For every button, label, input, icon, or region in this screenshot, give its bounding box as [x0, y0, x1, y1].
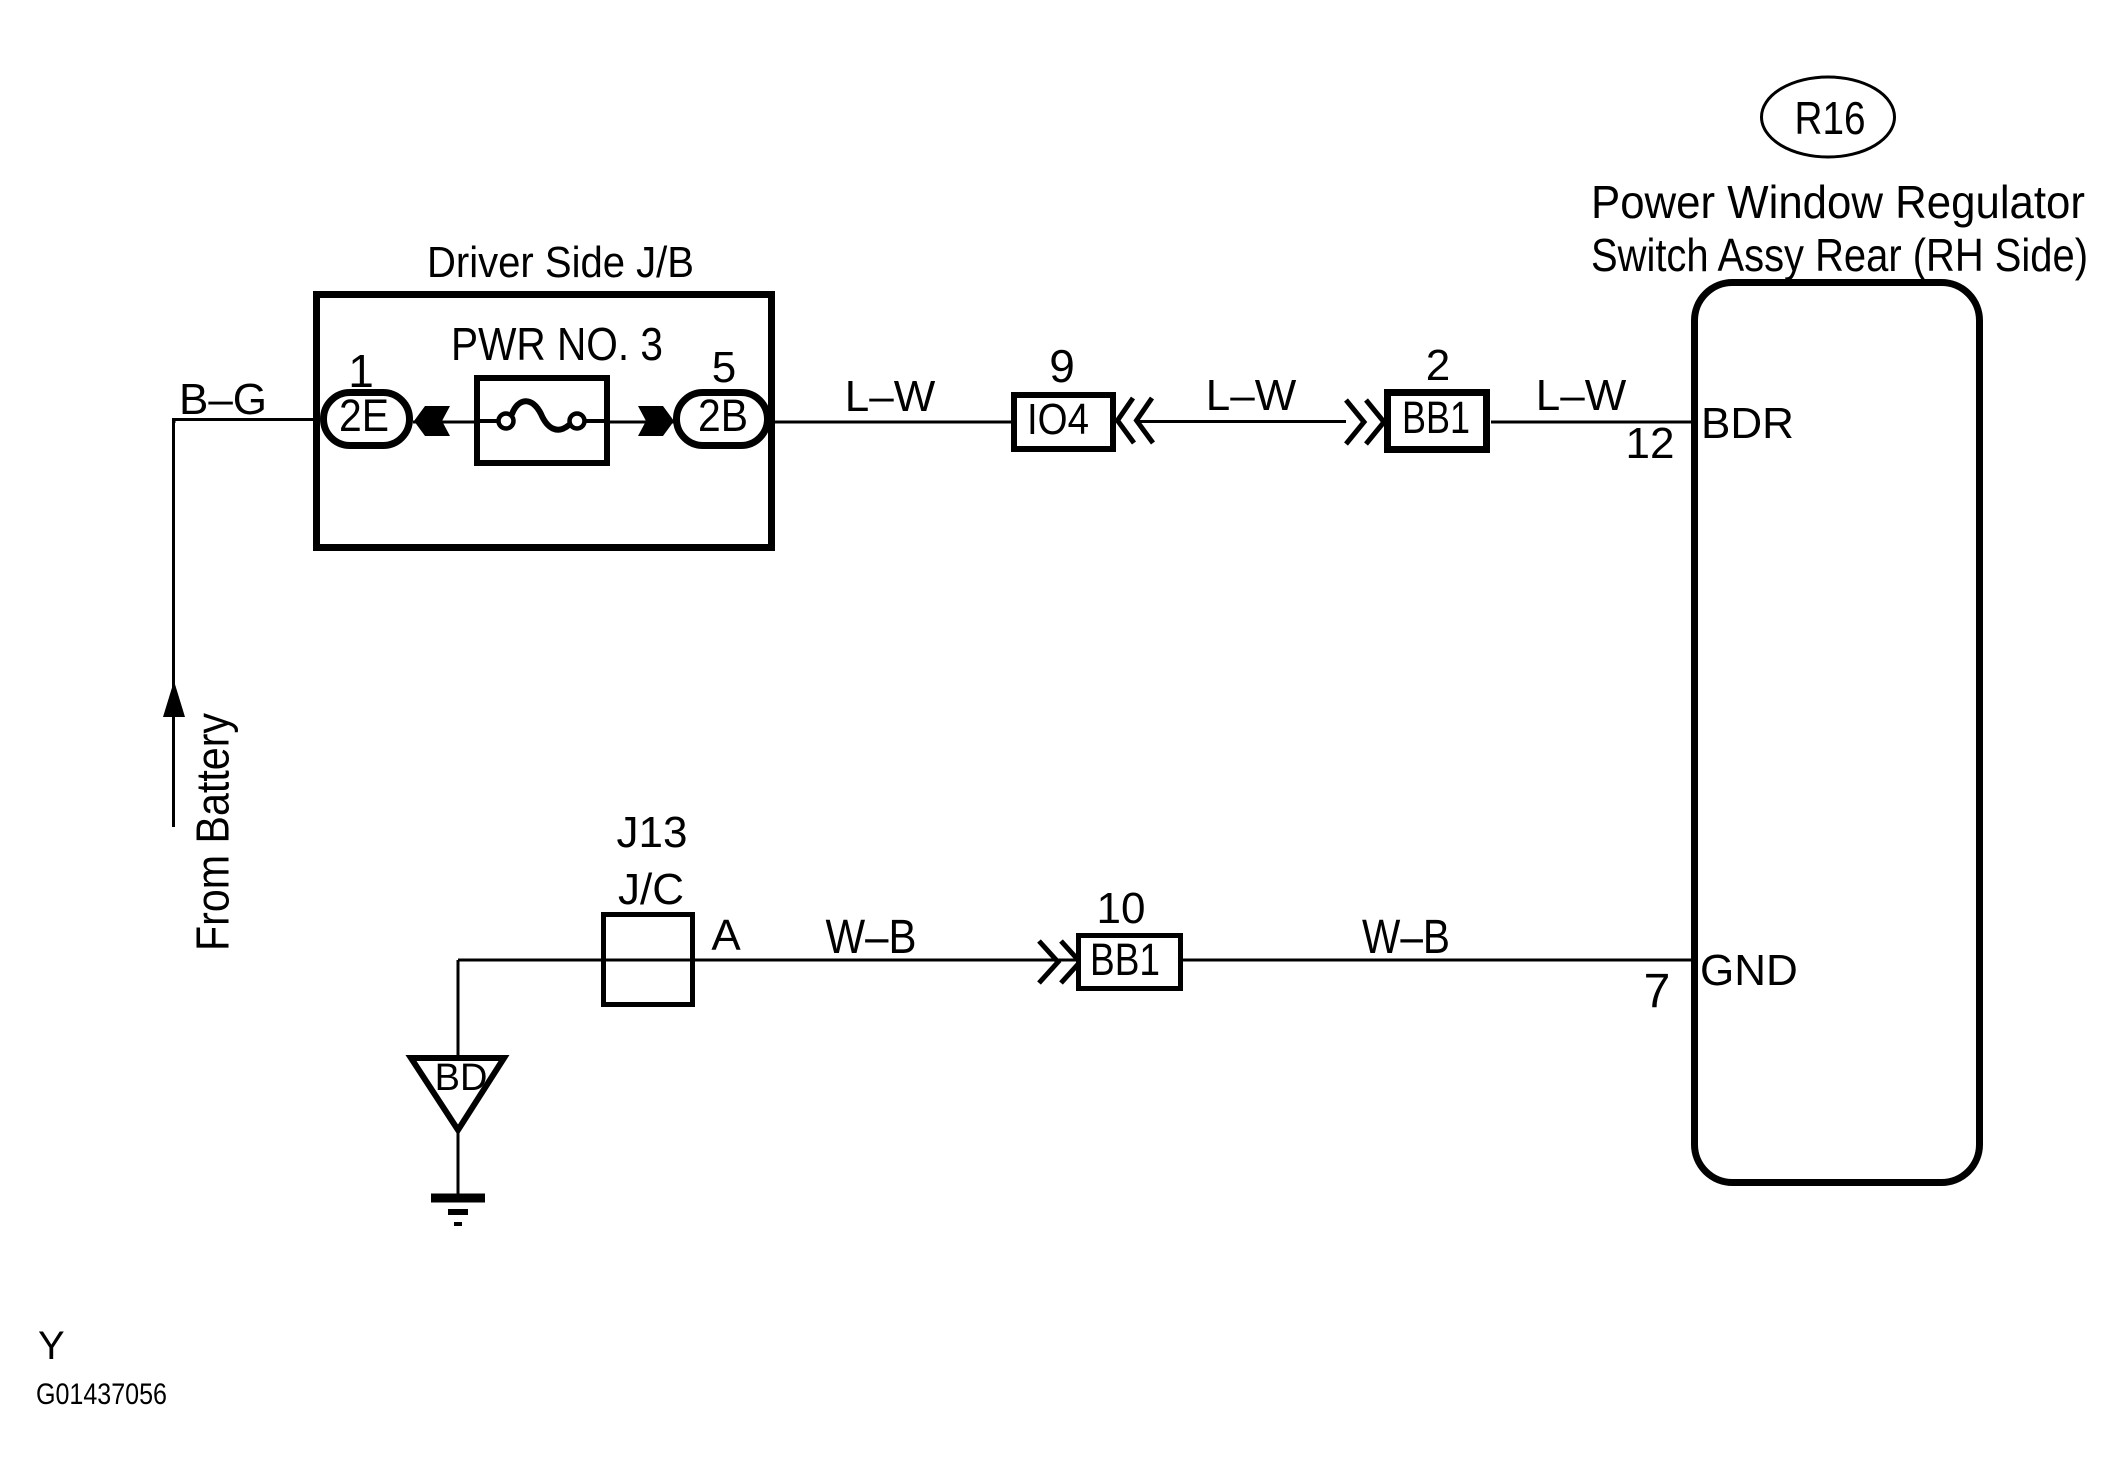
svg-text:BDR: BDR — [1701, 399, 1794, 448]
junction connector J13 J/C — [604, 808, 693, 1005]
wire vertical to ground — [457, 960, 460, 1057]
chevron connector << after IO4 — [1118, 398, 1154, 443]
svg-text:10: 10 — [1097, 884, 1146, 933]
svg-text:2B: 2B — [698, 390, 748, 441]
svg-text:Y: Y — [38, 1324, 65, 1368]
svg-text:2: 2 — [1426, 341, 1450, 390]
svg-text:L–W: L–W — [1206, 371, 1297, 420]
svg-text:L–W: L–W — [1536, 371, 1627, 420]
svg-text:From Battery: From Battery — [187, 713, 239, 951]
switch assembly box R16 — [1695, 283, 1980, 1183]
svg-text:B–G: B–G — [179, 375, 267, 424]
svg-text:J13: J13 — [617, 808, 688, 857]
svg-text:R16: R16 — [1795, 92, 1866, 144]
svg-text:A: A — [711, 911, 741, 960]
svg-text:BB1: BB1 — [1090, 934, 1160, 985]
arrow From Battery (up arrowhead) — [163, 681, 185, 717]
wire W-B lower run — [458, 959, 1692, 962]
svg-text:PWR NO. 3: PWR NO. 3 — [451, 318, 663, 370]
svg-text:L–W: L–W — [845, 372, 936, 421]
wire battery riser vertical — [172, 420, 175, 828]
connector 2B — [677, 390, 768, 446]
wire L-W segment 1 — [774, 421, 1011, 424]
arrow right toward 2B — [638, 406, 674, 436]
ground symbol bars — [431, 1198, 485, 1224]
wire L-W segment 3 — [1491, 421, 1694, 424]
connector BB1 bottom — [1079, 934, 1181, 989]
wire 2E to fuse — [413, 421, 474, 424]
svg-text:Driver Side J/B: Driver Side J/B — [427, 238, 694, 287]
wire L-W segment 2 — [1139, 420, 1346, 423]
chevron connector >> before BB1 lower — [1039, 941, 1080, 983]
junction block Driver Side J/B — [317, 295, 772, 548]
svg-text:Switch Assy Rear (RH Side): Switch Assy Rear (RH Side) — [1591, 229, 2088, 281]
svg-text:9: 9 — [1049, 340, 1075, 392]
wire fuse to 2B — [610, 421, 674, 424]
component R16 ellipse — [1762, 77, 1895, 157]
svg-text:7: 7 — [1644, 965, 1671, 1018]
svg-text:J/C: J/C — [618, 865, 684, 914]
svg-text:IO4: IO4 — [1027, 395, 1089, 444]
ground BD triangle — [411, 1057, 504, 1130]
wire B-G horizontal from battery riser to junction block — [172, 420, 320, 424]
svg-text:2E: 2E — [339, 390, 389, 441]
svg-text:Power Window Regulator: Power Window Regulator — [1591, 176, 2085, 228]
connector BB1 top — [1388, 392, 1487, 450]
svg-text:W–B: W–B — [826, 911, 917, 964]
svg-text:G01437056: G01437056 — [36, 1378, 167, 1411]
arrow left toward 2E — [414, 406, 450, 436]
svg-text:BD: BD — [435, 1057, 488, 1099]
chevron connector >> before BB1 — [1346, 400, 1384, 444]
svg-text:GND: GND — [1700, 946, 1798, 995]
svg-text:W–B: W–B — [1362, 911, 1450, 964]
connector 2E — [324, 390, 410, 446]
svg-text:BB1: BB1 — [1402, 392, 1470, 443]
fuse PWR NO. 3 — [477, 378, 607, 463]
svg-text:5: 5 — [712, 343, 736, 392]
connector IO4 — [1014, 395, 1113, 449]
svg-text:12: 12 — [1626, 419, 1675, 468]
wire triangle apex to ground — [457, 1132, 460, 1195]
